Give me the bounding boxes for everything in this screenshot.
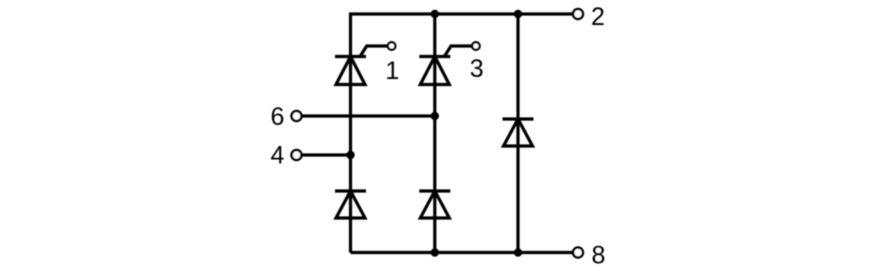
wire top bus from node A to terminal 2 xyxy=(351,12,573,15)
terminal circle 2 xyxy=(573,9,583,19)
svg-text:1: 1 xyxy=(385,57,399,85)
junction node top middle xyxy=(431,10,439,18)
terminal circle 6 xyxy=(292,111,302,121)
wire right branch vertical xyxy=(516,14,519,253)
terminal circle 8 xyxy=(573,248,583,258)
thyristor upper-middle (gate pin 3) xyxy=(419,46,472,85)
wire terminal 6 to middle branch xyxy=(303,114,435,117)
svg-text:2: 2 xyxy=(591,3,605,31)
junction node wire4 / left branch xyxy=(346,151,354,159)
thyristor upper-left (gate pin 1) xyxy=(335,46,388,85)
diode lower-left xyxy=(335,191,366,218)
gate terminal circle pin 1 xyxy=(388,42,396,50)
svg-text:3: 3 xyxy=(470,55,484,83)
junction node bottom middle xyxy=(431,248,439,256)
diode lower-middle xyxy=(419,191,450,218)
svg-text:8: 8 xyxy=(592,242,606,270)
junction node bottom right xyxy=(514,248,522,256)
terminal circle 4 xyxy=(292,150,302,160)
svg-text:4: 4 xyxy=(271,142,285,170)
svg-text:6: 6 xyxy=(271,103,285,131)
junction node top right xyxy=(514,10,522,18)
wire left branch vertical xyxy=(349,13,352,253)
junction node wire6 / middle branch xyxy=(431,112,439,120)
wire bottom bus to terminal 8 xyxy=(351,251,573,254)
diode right freewheel xyxy=(503,119,534,146)
wire middle branch vertical xyxy=(433,14,436,253)
gate terminal circle pin 3 xyxy=(472,42,480,50)
wire terminal 4 to left branch xyxy=(303,153,351,156)
